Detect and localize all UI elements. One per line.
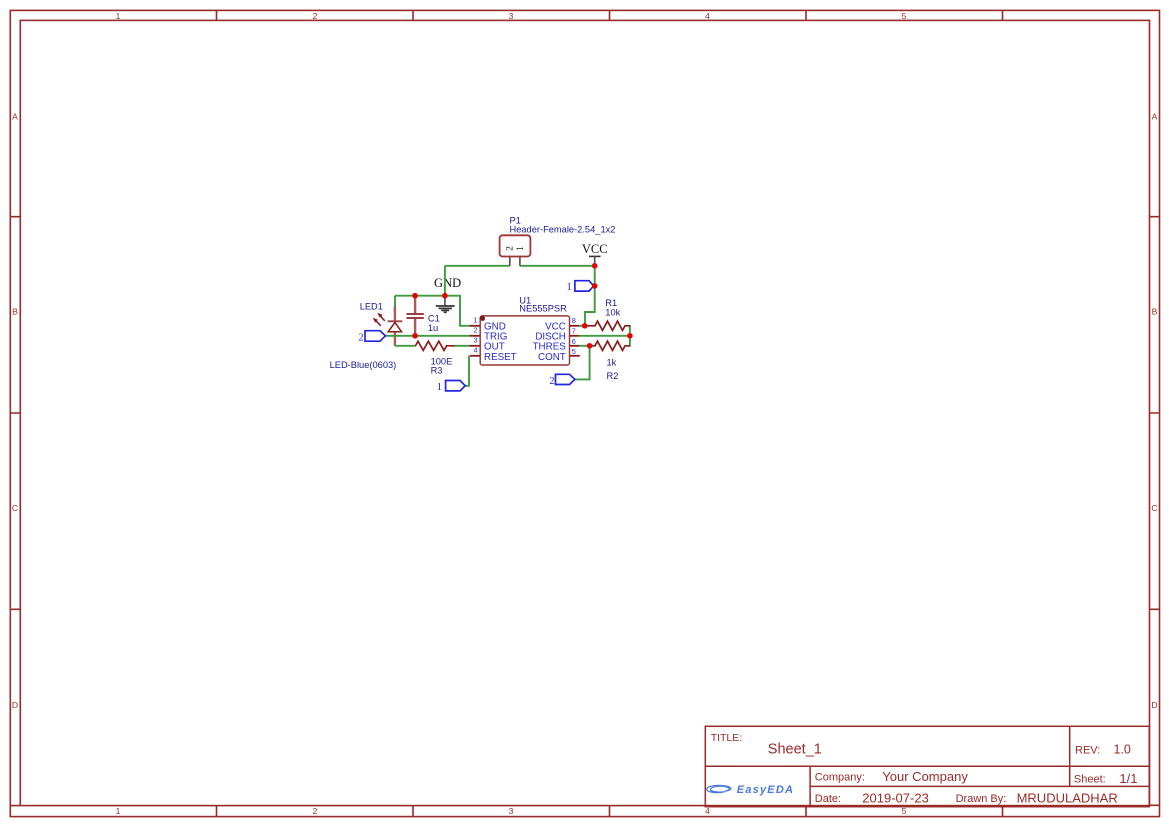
svg-text:1.0: 1.0 bbox=[1114, 742, 1131, 756]
P1 pin 1 lead bbox=[519, 257, 521, 266]
svg-text:A: A bbox=[12, 112, 18, 122]
svg-text:A: A bbox=[1152, 112, 1158, 122]
P1 pin 2 lead bbox=[509, 257, 511, 266]
U1 pin 1 lead bbox=[470, 325, 480, 327]
wire pin 8 stub bbox=[579, 325, 585, 327]
svg-text:2: 2 bbox=[506, 246, 516, 251]
svg-text:VCC: VCC bbox=[582, 242, 608, 256]
wire GND rail top bbox=[395, 295, 460, 297]
svg-text:EasyEDA: EasyEDA bbox=[737, 784, 794, 796]
wire R1-R2 right vertical bbox=[629, 325, 631, 347]
U1 pin 4 lead bbox=[470, 355, 480, 357]
U1 pin 6 lead bbox=[569, 345, 579, 347]
svg-text:6: 6 bbox=[572, 337, 576, 346]
junction net flag 1 / VCC wire bbox=[592, 283, 598, 289]
svg-text:8: 8 bbox=[572, 316, 576, 325]
svg-text:MRUDULADHAR: MRUDULADHAR bbox=[1017, 791, 1118, 806]
svg-text:B: B bbox=[12, 307, 18, 317]
wire OUT row right (R3 to pin 3) bbox=[454, 345, 471, 347]
U1 pin 7 lead bbox=[569, 335, 579, 337]
svg-text:CONT: CONT bbox=[538, 352, 566, 363]
svg-text:Company:: Company: bbox=[815, 772, 865, 784]
svg-text:B: B bbox=[1152, 307, 1158, 317]
capacitor C1 bottom lead bbox=[414, 319, 416, 335]
svg-text:Sheet_1: Sheet_1 bbox=[768, 742, 822, 758]
net port 2 (left, TRIG net) bbox=[365, 331, 385, 342]
svg-text:10k: 10k bbox=[605, 307, 620, 317]
svg-text:TITLE:: TITLE: bbox=[711, 732, 743, 744]
svg-text:4: 4 bbox=[705, 806, 710, 816]
svg-text:2: 2 bbox=[549, 376, 554, 387]
wire VCC vertical to pin 8 bbox=[585, 266, 595, 326]
connector P1 body bbox=[500, 235, 531, 256]
ground symbol bbox=[436, 296, 455, 312]
capacitor C1 plates bbox=[406, 314, 423, 318]
resistor R2 bbox=[590, 341, 630, 350]
svg-text:4: 4 bbox=[705, 11, 710, 21]
svg-text:2: 2 bbox=[313, 11, 318, 21]
net port 2 (right, THRES net) bbox=[556, 374, 575, 384]
title block bbox=[705, 726, 1149, 806]
svg-text:Header-Female-2.54_1x2: Header-Female-2.54_1x2 bbox=[510, 224, 616, 234]
svg-text:2: 2 bbox=[359, 332, 364, 343]
svg-text:NE555PSR: NE555PSR bbox=[519, 303, 567, 313]
LED1 cathode lead bbox=[394, 332, 396, 346]
LED1 arrow heads bbox=[377, 313, 382, 318]
svg-text:Sheet:: Sheet: bbox=[1074, 774, 1106, 786]
junction VCC / P1 pin 1 bbox=[592, 263, 598, 269]
resistor R1 bbox=[585, 321, 630, 330]
svg-text:R2: R2 bbox=[607, 371, 619, 381]
wire GND vertical bbox=[444, 266, 446, 296]
svg-text:Date:: Date: bbox=[815, 793, 841, 805]
resistor R3 bbox=[416, 341, 455, 350]
svg-text:1: 1 bbox=[567, 282, 572, 293]
svg-text:5: 5 bbox=[902, 11, 907, 21]
svg-text:1k: 1k bbox=[607, 357, 617, 367]
svg-text:1: 1 bbox=[437, 382, 442, 393]
svg-text:REV:: REV: bbox=[1075, 744, 1100, 756]
U1 pin 2 lead bbox=[470, 335, 480, 337]
junction C1 bottom / TRIG wire bbox=[412, 333, 418, 339]
wire R2 to port 2 (right) bbox=[574, 346, 589, 380]
wire P1 pin 2 to GND node bbox=[445, 265, 510, 267]
svg-text:1: 1 bbox=[473, 315, 477, 324]
junction DISCH / R1-R2 bbox=[627, 333, 633, 339]
LED LED1 diode symbol bbox=[388, 321, 403, 332]
svg-text:1: 1 bbox=[116, 806, 121, 816]
wire P1 pin 1 to VCC node bbox=[520, 265, 595, 267]
EasyEDA logo bbox=[707, 784, 794, 796]
svg-text:5: 5 bbox=[572, 347, 576, 356]
svg-text:1u: 1u bbox=[428, 323, 438, 333]
capacitor C1 top lead bbox=[414, 297, 416, 314]
svg-text:Your Company: Your Company bbox=[882, 769, 968, 784]
net port 1 (bottom, RESET net) bbox=[446, 381, 466, 391]
junction C1 top / GND rail bbox=[412, 293, 418, 299]
LED1 light arrows bbox=[374, 314, 385, 326]
svg-text:3: 3 bbox=[473, 336, 477, 345]
junction GND wire / rail bbox=[442, 293, 448, 299]
wire DISCH row (pin 7 to R1/R2 junction) bbox=[579, 335, 630, 337]
wire TRIG row (port 2 to pin 2) bbox=[385, 335, 470, 337]
wire THRES stub (pin 6) bbox=[579, 345, 590, 347]
junction pin 6 / R2 bbox=[587, 343, 593, 349]
svg-text:D: D bbox=[1151, 700, 1157, 710]
wire OUT row left (LED1 to R3) bbox=[395, 345, 416, 347]
VCC power symbol bbox=[589, 256, 601, 265]
IC U1 body (NE555PSR) bbox=[480, 316, 569, 365]
svg-text:3: 3 bbox=[509, 11, 514, 21]
svg-text:RESET: RESET bbox=[484, 352, 517, 363]
svg-text:4: 4 bbox=[473, 346, 477, 355]
U1 pin 8 lead bbox=[569, 325, 579, 327]
svg-text:5: 5 bbox=[902, 806, 907, 816]
svg-text:1: 1 bbox=[516, 246, 526, 251]
wire port 1 to RESET pin 4 elbow bbox=[465, 356, 469, 386]
svg-text:Drawn By:: Drawn By: bbox=[956, 793, 1007, 805]
svg-text:C: C bbox=[1151, 503, 1157, 513]
svg-text:3: 3 bbox=[509, 806, 514, 816]
svg-text:1/1: 1/1 bbox=[1119, 771, 1137, 786]
U1 pin 5 lead bbox=[569, 355, 580, 357]
wire LED1 top stub bbox=[394, 296, 396, 307]
LED1 anode lead bbox=[394, 306, 396, 321]
svg-text:7: 7 bbox=[572, 327, 576, 336]
svg-text:2019-07-23: 2019-07-23 bbox=[862, 791, 929, 806]
svg-text:R3: R3 bbox=[431, 365, 443, 375]
svg-text:1: 1 bbox=[116, 11, 121, 21]
svg-text:D: D bbox=[12, 700, 18, 710]
svg-text:2: 2 bbox=[313, 806, 318, 816]
svg-text:2: 2 bbox=[473, 326, 477, 335]
junction pin 8 / R1 bbox=[582, 323, 588, 329]
net flag 1 (VCC net) bbox=[575, 281, 594, 291]
svg-text:LED-Blue(0603): LED-Blue(0603) bbox=[330, 360, 397, 370]
svg-text:GND: GND bbox=[434, 276, 461, 290]
U1 pin 1 indicator dot bbox=[480, 316, 485, 321]
svg-text:LED1: LED1 bbox=[360, 302, 383, 312]
svg-text:C: C bbox=[12, 503, 18, 513]
U1 pin 3 lead bbox=[470, 345, 480, 347]
wire GND rail to pin 1 elbow bbox=[460, 295, 470, 326]
svg-text:R1: R1 bbox=[605, 298, 617, 308]
